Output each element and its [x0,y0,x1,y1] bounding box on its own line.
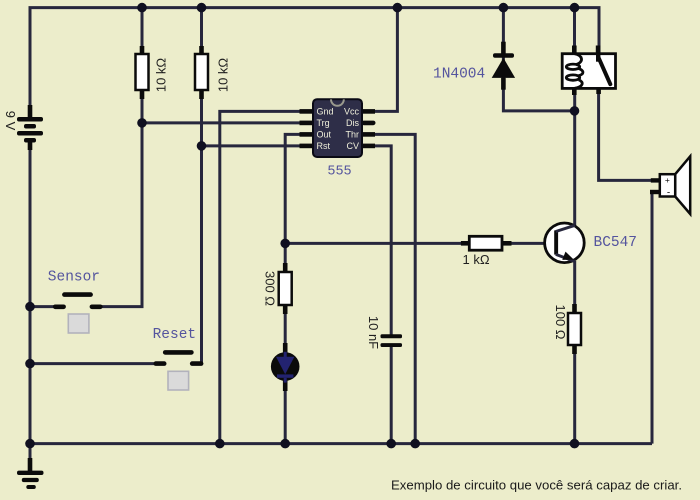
junction: top rail / relay coil [570,3,580,13]
svg-text:1N4004: 1N4004 [433,67,485,83]
LED LED1 [271,343,300,391]
junction: ground rail / left rail [25,439,35,449]
junction: 555 Out node [280,239,290,249]
wire: capacitor C1 bottom plate to ground rail [390,344,393,444]
speaker SP1 [650,156,690,214]
svg-text:Exemplo de circuito que você s: Exemplo de circuito que você será capaz … [391,478,682,493]
junction: ground rail / R5 [570,439,580,449]
resistor R5 100 Ω [568,304,581,354]
resistor R3 300 Ω [279,263,292,314]
relay K1 [562,46,615,96]
svg-text:100 Ω: 100 Ω [553,304,568,339]
svg-text:Sensor: Sensor [48,269,100,285]
resistor R2 10 kΩ [195,46,208,99]
junction: left rail / reset [25,359,35,369]
junction: top rail / diode D1 [499,3,509,13]
wire: R2 column from rail through R2 down to reset right contact [200,8,203,364]
junction: top rail / R1 [137,3,147,13]
wire: output node down through R3 and LED1 to ground rail [284,243,287,443]
555 timer U1 [300,99,376,157]
wire: top rail down through diode D1 to coil node [503,8,574,111]
wire: 555 Thr pin down to ground rail [374,134,415,443]
junction: diode / coil / collector node [570,106,580,116]
junction: R1 / Trg / sensor node [137,118,147,128]
svg-text:10 kΩ: 10 kΩ [153,58,168,93]
svg-text:Out: Out [317,130,332,140]
svg-text:555: 555 [327,165,351,180]
wire: bottom ground rail [30,442,652,445]
wire: 555 Rst pin to R2/reset node [202,144,304,147]
resistor R4 1 kΩ [461,236,512,250]
junction: ground rail / Thr wire [410,439,420,449]
junction: top rail / R2 [197,3,207,13]
wire: relay coil bottom pin to Q1 collector [573,89,576,226]
wire: Q1 emitter down through R5 to ground rail [573,261,576,444]
svg-text:9 V: 9 V [3,111,18,131]
svg-text:Rst: Rst [317,141,331,151]
resistor R1 10 kΩ [136,46,149,99]
wire: 555 Out pin down to output node [285,134,303,243]
svg-text:1 kΩ: 1 kΩ [463,252,490,267]
junction: top rail / 555 Vcc [393,3,403,13]
svg-text:Vcc: Vcc [344,107,360,117]
junction: left rail / sensor [25,302,35,312]
wire: 555 Gnd pin to ground rail [220,111,303,443]
svg-text:Thr: Thr [346,130,360,140]
wire: relay switch bottom pin to speaker + [599,89,656,180]
pushbutton S1 Sensor [53,292,103,333]
wire: left rail to sensor left contact [30,305,55,308]
svg-text:300 Ω: 300 Ω [263,271,278,306]
capacitor C1 10 nF [381,334,403,347]
svg-text:+: + [665,175,670,185]
svg-text:BC547: BC547 [594,235,638,251]
diode D1 1N4004 [492,42,515,90]
svg-text:-: - [667,187,670,198]
junction: R2 / Rst / reset node [197,141,207,151]
svg-text:Gnd: Gnd [317,107,334,117]
wire: ground symbol stub [29,444,32,462]
wire: top rail to relay coil top pin [573,8,576,53]
wire: 555 Vcc pin up to top rail [374,8,397,112]
svg-text:Dis: Dis [346,118,359,128]
junction: ground rail / 555 Gnd [215,439,225,449]
ground symbol [17,458,44,489]
svg-text:CV: CV [346,141,359,151]
transistor Q1 BC547 [545,223,585,263]
wire: speaker - down and along to ground rail [652,192,656,444]
junction: ground rail / C1 [386,439,396,449]
wire: output node through R4 to Q1 base [285,242,556,245]
svg-text:10 nF: 10 nF [366,316,381,349]
wire: 555 CV pin down to capacitor C1 top plate [374,146,391,336]
svg-text:Trg: Trg [317,118,330,128]
battery BT1 9V [17,105,43,150]
svg-text:Reset: Reset [153,327,197,343]
pushbutton S2 Reset [154,350,204,390]
wire: 555 Trg pin to R1/sensor node [142,121,303,124]
wire: R1 column from rail through R1 down to sensor right contact [100,8,142,307]
wire: left rail to reset left contact [30,362,157,365]
junction: ground rail / LED [280,439,290,449]
svg-text:10 kΩ: 10 kΩ [215,58,230,93]
wire: battery + up left corner, top Vcc rail, down to relay switch pin [30,8,599,117]
wire: battery - down the left side to ground rail [29,149,32,444]
